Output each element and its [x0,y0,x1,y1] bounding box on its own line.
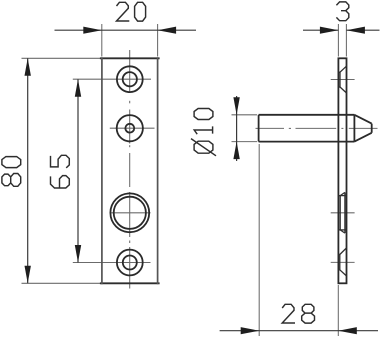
centerline hole D horizontal (65-dim bottom extension) [73,262,151,264]
hole D bore [123,256,137,270]
centerline dot [129,241,131,244]
dimension 80 [27,58,29,283]
centerline dash through hole B [129,110,131,144]
hole C side centerline [331,212,355,214]
hole D countersink outer [117,250,143,276]
pin [259,115,372,142]
28-dim right extension [337,285,339,336]
text 3 [336,2,348,21]
centerline dash through hole D [129,247,131,289]
centerline hole A horizontal (65-dim top extension) [73,78,151,80]
hole D side centerline [331,261,355,263]
hole C side [338,195,346,197]
extension line 80-dim bottom [22,282,101,284]
pin tip upper chamfer [354,115,371,124]
centerline dash between holes [129,153,131,187]
text 65 (rotated) [51,155,70,188]
extension line right of 20-dim [157,24,159,57]
dimension Ø10 [236,96,238,161]
pin cone base [353,115,355,142]
dimension 3 [303,29,380,31]
centerline dot [129,101,131,104]
text 28 [282,304,314,323]
dimension 20 [55,29,197,31]
Ø10 extension lines [232,114,258,116]
hole C inner [114,197,146,229]
dimension 28 [220,330,378,332]
plate outline front view [100,57,160,284]
hole D side [338,254,339,256]
pin left face [258,115,260,142]
text 20 [117,2,146,21]
hole A side centerline [331,79,355,81]
centerline dash through hole C [129,192,131,237]
text Ø10 (rotated) [191,109,216,156]
pin top edge [259,114,355,116]
hole A side [338,71,340,73]
centerline hole B horizontal [110,127,155,129]
text 80 (rotated) [2,157,21,187]
centerline hole C horizontal [110,212,151,214]
extension line left of 20-dim [101,24,103,57]
holes front view [110,66,149,275]
side plate [338,58,346,283]
dimension 65 [77,79,79,262]
pin tip lower chamfer [354,133,371,142]
hole C outer [110,193,149,232]
extension lines for 3-dim [337,24,339,57]
28-dim left extension [258,144,260,336]
pin tip face [371,124,373,133]
pin bottom edge [259,141,355,143]
hole A countersink outer [117,66,143,92]
hole B countersink outer [117,115,143,141]
side view hole details [338,66,346,276]
hole B bore [125,124,134,133]
centerline dot [129,145,131,147]
pin centerline dash-dot [256,127,285,129]
hole A bore [123,72,137,86]
vertical centerline dash above plate [129,50,131,93]
extension line 80-dim top [22,57,101,59]
